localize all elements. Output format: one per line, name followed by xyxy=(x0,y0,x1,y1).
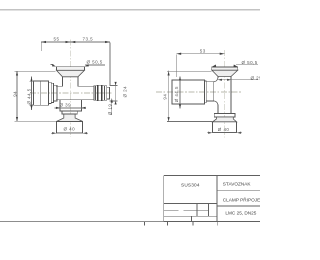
svg-text:53: 53 xyxy=(200,48,206,53)
svg-text:Ø 40: Ø 40 xyxy=(218,127,230,132)
svg-text:55: 55 xyxy=(54,37,60,42)
svg-text:Ø 50,5: Ø 50,5 xyxy=(242,60,258,65)
svg-text:Ø 44,5: Ø 44,5 xyxy=(27,88,32,104)
svg-text:Ø 44,5: Ø 44,5 xyxy=(174,86,179,102)
svg-text:73,5: 73,5 xyxy=(83,37,94,42)
svg-text:Ø 40: Ø 40 xyxy=(64,127,76,132)
svg-text:Ø 24: Ø 24 xyxy=(122,86,127,98)
svg-text:LMC 25, DN25: LMC 25, DN25 xyxy=(225,210,256,215)
svg-text:94: 94 xyxy=(12,91,17,97)
svg-text:Ø 39: Ø 39 xyxy=(60,103,72,108)
svg-text:Ø 25: Ø 25 xyxy=(251,75,261,80)
svg-text:SUS304: SUS304 xyxy=(181,183,200,188)
svg-text:Ø 19: Ø 19 xyxy=(107,104,112,116)
svg-text:94: 94 xyxy=(163,94,168,100)
svg-text:STAVOZNAK: STAVOZNAK xyxy=(223,182,252,187)
svg-text:Ø 50,5: Ø 50,5 xyxy=(87,60,103,65)
svg-text:CLAMP PŘIPOJENÍ: CLAMP PŘIPOJENÍ xyxy=(223,196,260,203)
